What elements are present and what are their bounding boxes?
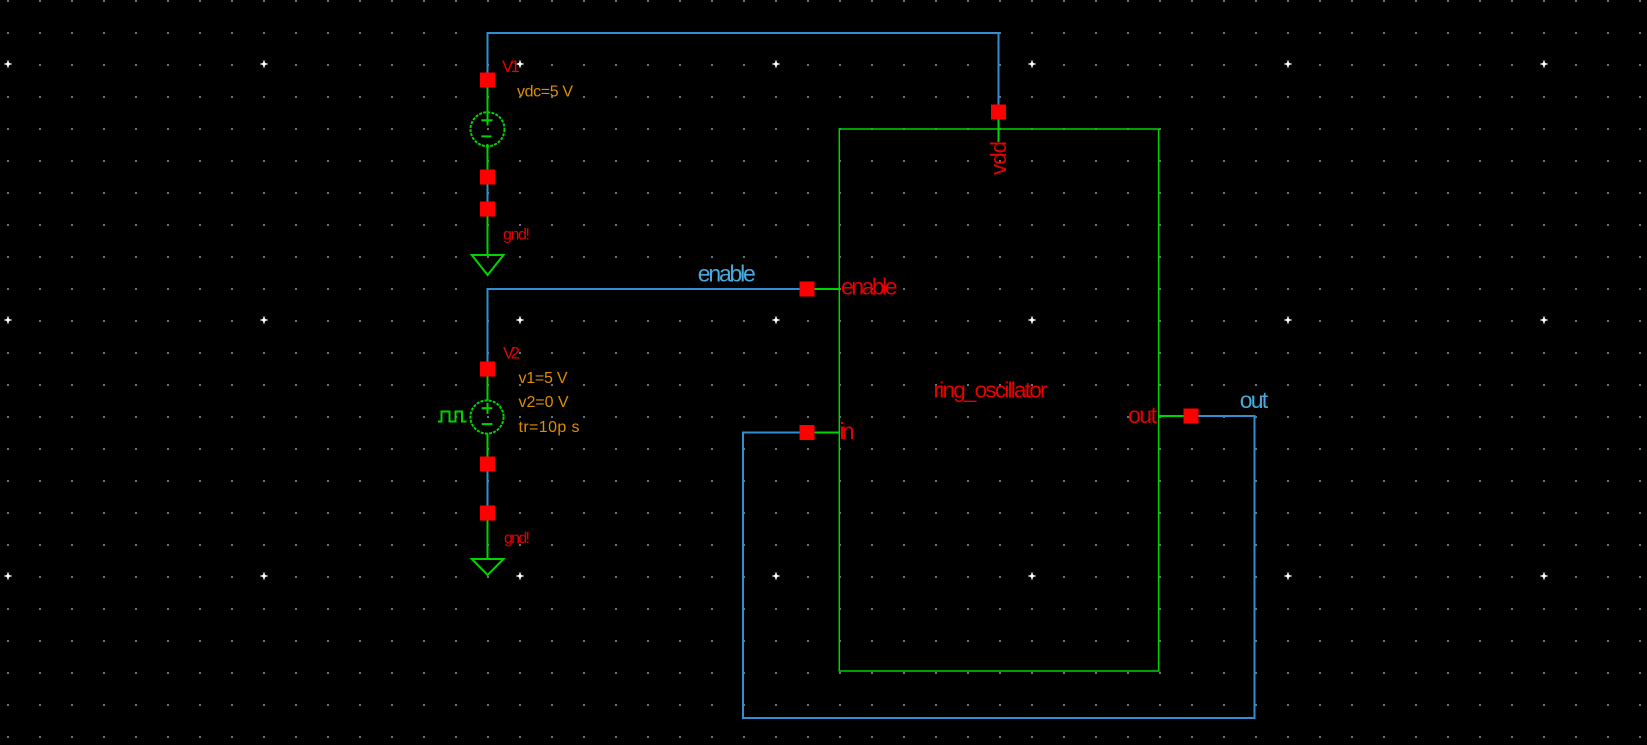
bright grid stars [3, 59, 1548, 580]
pin square gnd2 [480, 506, 495, 521]
wire out net: out pin loop around to in pin [743, 416, 1255, 718]
svg-text:gnd!: gnd! [503, 227, 530, 244]
pin stub in [807, 432, 840, 434]
pin stub out [1159, 415, 1191, 417]
svg-text:in: in [840, 418, 855, 444]
svg-text:tr=10p s: tr=10p s [519, 419, 580, 436]
pin stub enable [807, 288, 840, 290]
svg-text:out: out [1128, 402, 1158, 428]
instance box ring_oscillator [839, 129, 1158, 671]
svg-text:vdd: vdd [986, 141, 1011, 175]
pin square V2 plus [480, 362, 495, 377]
pin square V1 minus [480, 170, 495, 185]
voltage source V1 (vdc) [471, 87, 505, 170]
svg-text:out: out [1240, 387, 1269, 413]
pin stub vdd [998, 112, 1000, 142]
svg-text:gnd!: gnd! [504, 530, 530, 547]
svg-text:V1: V1 [502, 57, 520, 76]
pin square V1 plus [480, 73, 495, 88]
wire V1 minus to gnd [487, 177, 489, 209]
wire V2 minus to gnd [487, 464, 489, 512]
pin square vdd [991, 105, 1006, 120]
pin square in [800, 425, 815, 440]
ground symbol gnd (V2 branch) [472, 520, 504, 576]
voltage source V2 (vpulse) [438, 376, 504, 457]
wire vdd net: V1 plus pin up, across, down to vdd pin [488, 33, 999, 112]
pin square gnd1 [480, 202, 495, 217]
svg-text:enable: enable [841, 274, 898, 300]
pin square out [1184, 409, 1199, 424]
pin square V2 minus [480, 457, 495, 472]
svg-text:V2: V2 [503, 344, 520, 363]
svg-text:enable: enable [698, 261, 756, 287]
ground symbol gnd (V1 branch) [472, 217, 504, 276]
svg-text:ring_oscillator: ring_oscillator [934, 378, 1049, 403]
pin square enable [800, 282, 815, 297]
svg-text:v1=5 V: v1=5 V [519, 370, 568, 387]
svg-text:v2=0 V: v2=0 V [519, 394, 569, 411]
wire enable net: V2 plus pin up, across to enable pin [488, 289, 808, 362]
svg-text:vdc=5 V: vdc=5 V [517, 84, 573, 101]
